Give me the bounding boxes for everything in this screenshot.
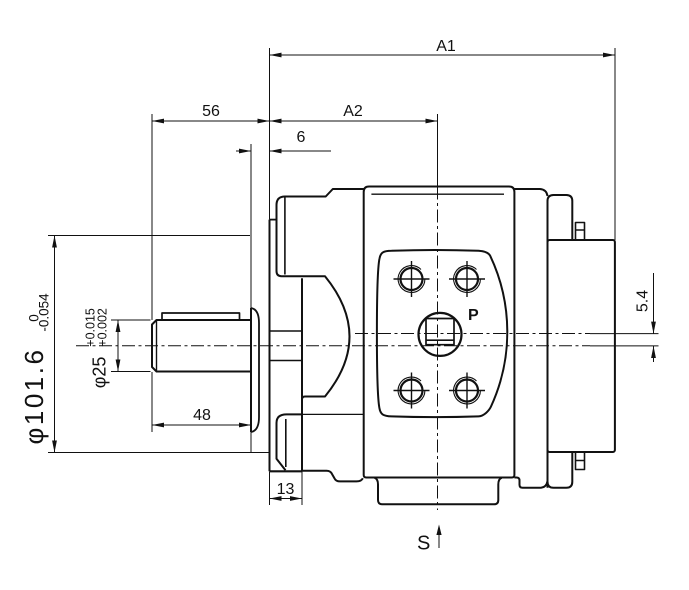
svg-text:A2: A2 [343, 103, 363, 120]
svg-text:P: P [468, 307, 479, 324]
svg-text:A1: A1 [436, 38, 456, 55]
svg-text:5.4: 5.4 [635, 290, 652, 312]
svg-text:S: S [417, 533, 430, 555]
svg-text:6: 6 [297, 129, 306, 146]
svg-text:φ101.6: φ101.6 [19, 348, 49, 445]
svg-text:13: 13 [277, 481, 295, 498]
svg-text:56: 56 [202, 103, 220, 120]
svg-text:48: 48 [193, 407, 211, 424]
svg-text:-0.054: -0.054 [36, 293, 51, 332]
svg-text:φ25: φ25 [90, 357, 110, 389]
svg-text:+0.002: +0.002 [96, 308, 110, 347]
